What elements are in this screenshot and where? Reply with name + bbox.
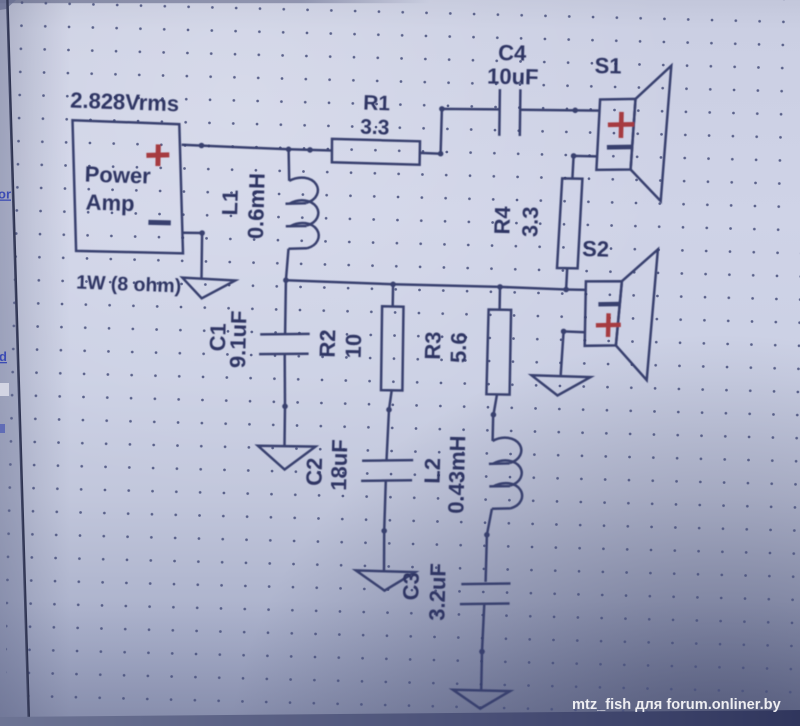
svg-text:0.6mH: 0.6mH [243, 173, 270, 240]
resistor R1 [332, 139, 420, 165]
svg-text:S1: S1 [594, 53, 621, 79]
svg-text:18uF: 18uF [326, 439, 352, 491]
ground (C2) [356, 570, 415, 590]
svg-text:C3: C3 [398, 572, 424, 601]
capacitor C2 [361, 410, 413, 531]
resistor R3 [486, 287, 511, 415]
junction [307, 147, 313, 153]
node bus-S2 [563, 287, 569, 293]
node L1 top [286, 147, 292, 153]
svg-text:9.1uF: 9.1uF [225, 310, 251, 368]
svg-text:mtz_fish для forum.onliner.by: mtz_fish для forum.onliner.by [572, 697, 782, 713]
S2 plus mark [596, 313, 621, 337]
left margin shade [0, 0, 29, 726]
svg-text:10uF: 10uF [487, 64, 539, 90]
svg-text:R3: R3 [420, 331, 446, 360]
speaker S2 [585, 249, 658, 380]
junction [438, 151, 444, 157]
wire C4 to S1 [520, 109, 600, 112]
small light box at left edge [0, 383, 9, 396]
wire S2 plus to ground [561, 331, 585, 375]
S1 plus mark [608, 112, 634, 138]
inductor L1 [286, 149, 319, 280]
power source V1 Power Amp box [73, 120, 184, 253]
browser bezel line (left) [7, 0, 29, 726]
wire S1 minus to R4 [572, 156, 596, 179]
junction [571, 153, 577, 159]
bottom dark strip [0, 710, 800, 726]
wire amp plus output to node [182, 145, 332, 151]
ground (C3) [453, 690, 510, 709]
junction [572, 108, 578, 114]
svg-text:3.3: 3.3 [360, 116, 390, 140]
svg-text:5.6: 5.6 [446, 332, 472, 363]
svg-text:R2: R2 [315, 329, 341, 358]
capacitor C3 [460, 535, 511, 652]
wire R4 to bus [566, 268, 567, 289]
junction [561, 329, 567, 335]
svg-text:R1: R1 [363, 92, 391, 116]
speaker S1 [596, 66, 671, 201]
V1 plus terminal mark [146, 144, 169, 166]
svg-text:1W (8 ohm): 1W (8 ohm) [76, 272, 182, 298]
V1 minus terminal mark [148, 220, 170, 226]
svg-text:d: d [0, 349, 7, 364]
svg-text:2.828Vrms: 2.828Vrms [70, 88, 180, 117]
junction [199, 143, 205, 149]
svg-text:3.2uF: 3.2uF [424, 563, 450, 621]
node bus-R3 [497, 284, 503, 290]
capacitor C4 [499, 89, 520, 136]
wire C1 to ground [283, 406, 286, 446]
screen-edge dark top line [0, 0, 430, 3]
ground (amp) [182, 278, 235, 299]
wire amp minus to ground [183, 233, 203, 279]
S2 minus mark [598, 302, 619, 307]
svg-text:R4: R4 [489, 205, 515, 235]
resistor R4 [557, 178, 582, 268]
node bus-R2 [390, 282, 396, 288]
top-left corner dark wedge [0, 0, 16, 10]
svg-text:C4: C4 [498, 40, 527, 66]
svg-text:0.43mH: 0.43mH [443, 435, 470, 514]
svg-text:L1: L1 [217, 189, 243, 215]
ground (S2) [532, 375, 591, 395]
junction [199, 230, 205, 236]
svg-text:L2: L2 [419, 458, 445, 484]
junction [491, 412, 497, 418]
inductor L2 [487, 415, 522, 535]
wire C3 to ground [480, 652, 483, 691]
junction [381, 528, 387, 534]
wire C2 to ground [383, 531, 386, 571]
wire bus [286, 280, 586, 290]
resistor R2 [381, 284, 404, 409]
svg-text:10: 10 [341, 334, 367, 359]
node bus-L1 [283, 277, 289, 283]
ground (C1) [258, 446, 316, 470]
junction [282, 404, 288, 410]
S1 minus mark [607, 145, 631, 150]
junction [484, 532, 490, 538]
svg-text:3.3: 3.3 [517, 206, 543, 237]
svg-text:Amp: Amp [85, 190, 135, 217]
junction [386, 407, 392, 413]
junction [439, 106, 445, 112]
svg-text:C2: C2 [301, 457, 327, 486]
svg-text:Power: Power [84, 162, 151, 189]
wire R1 to corner [420, 109, 500, 154]
capacitor C1 [259, 280, 310, 406]
svg-text:or: or [0, 187, 11, 202]
junction [479, 649, 485, 655]
svg-text:S2: S2 [582, 236, 610, 262]
